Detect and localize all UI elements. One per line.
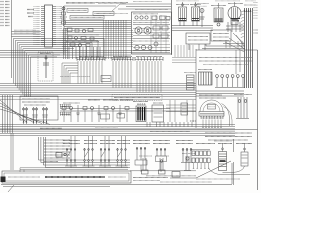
bottom headers row1 (63, 140, 193, 142)
ballast resistor hatched (214, 141, 232, 171)
output transformer T3 (211, 3, 226, 26)
cluster component right (234, 95, 252, 119)
module box lower (152, 103, 164, 122)
pointer line (170, 161, 231, 178)
IC U1 right pins (53, 7, 57, 45)
wire drops right of tuner (172, 45, 196, 63)
lower main bus (0, 125, 258, 136)
tuner coil L1 (135, 27, 142, 34)
harness hatch labels (241, 11, 244, 38)
transformer dark bars (215, 19, 241, 22)
lower mid wires right (166, 100, 196, 122)
IC U1 main processor (45, 5, 53, 47)
switch output wires (20, 168, 128, 172)
module box B top (93, 4, 126, 16)
component row labels (63, 100, 133, 103)
harness labels (244, 5, 258, 33)
junction box bottom (130, 171, 196, 177)
component row right panel (215, 75, 245, 88)
speedometer pin wires (190, 120, 221, 129)
wires below T1 T2 (180, 21, 205, 50)
wire drops from P2 (113, 61, 131, 88)
ignition coil hatched box (184, 73, 196, 91)
flyback transformer T4 (228, 2, 243, 25)
switch S2 (83, 148, 95, 168)
IC U1 left pins (41, 7, 45, 45)
section divider wire (171, 0, 173, 55)
connector strip P2 (112, 57, 134, 61)
speedometer arc outer (200, 100, 223, 112)
wires above tuner (112, 2, 171, 12)
lamp L3 (42, 107, 48, 124)
wires right of IC (64, 28, 68, 59)
comb connector left (60, 104, 70, 115)
connector pin label list (1, 2, 10, 26)
ground junction block (1, 177, 6, 183)
speedometer right shoulder wires (222, 104, 233, 127)
switch S4 (116, 148, 128, 168)
connector strip P3 (135, 57, 164, 61)
main horizontal bus (0, 84, 196, 100)
IF transformer T1 (176, 2, 189, 21)
connector strip P1 (77, 57, 106, 61)
tuner coil L2 (144, 27, 151, 34)
component boxes mid (101, 114, 125, 120)
top edge labels (176, 0, 256, 2)
sensor B2 (156, 156, 169, 174)
wire drops from P3 (137, 61, 161, 92)
tuner caps (135, 16, 170, 20)
wavy harness wire (208, 168, 250, 175)
antenna input chain (60, 6, 67, 26)
note text bottom (133, 176, 212, 182)
parts list text block (44, 140, 70, 162)
wire bus right top (172, 26, 213, 31)
tuner internal wires (133, 15, 170, 53)
right panel text rows (199, 58, 252, 65)
terminal strip text (8, 176, 126, 178)
terminal strip box outer (2, 171, 131, 183)
IC U1 pin labels left (34, 7, 41, 45)
dashed label box mid (112, 95, 162, 101)
tuner inner parts (133, 23, 170, 51)
divider vertical right (233, 139, 235, 185)
tuner top labels (133, 10, 168, 14)
node labels (27, 10, 34, 17)
resistor capacitor row (62, 105, 129, 122)
connector group G7 (181, 148, 193, 163)
wire rows mid (62, 31, 133, 47)
right margin text column (254, 3, 258, 19)
lamp group labels (22, 99, 50, 105)
harness arrowheads (244, 10, 252, 12)
wire harness corner fan (13, 39, 104, 97)
module box right (186, 33, 210, 44)
component row main wire (60, 109, 196, 112)
instrument cluster labels (199, 95, 226, 98)
regulator component (223, 143, 249, 173)
module box C (70, 16, 104, 20)
wire bus upper middle (0, 51, 170, 58)
bus label (95, 127, 190, 132)
diagonal feed wires (0, 100, 50, 124)
bottom bus lines (1, 184, 232, 192)
ignition switch box (181, 103, 188, 115)
delay line box (101, 76, 111, 82)
bottom right riser (231, 163, 233, 184)
wire rows top middle (64, 3, 131, 29)
left harness drop bundle (39, 137, 131, 168)
bottom headers row2 (63, 143, 252, 145)
lamp L1 (22, 107, 28, 124)
switch S1 (65, 148, 77, 168)
speedometer pins (201, 116, 224, 119)
sensor B3 (182, 154, 195, 171)
switch S6 group (156, 148, 167, 172)
crystal Y1 (40, 54, 51, 79)
crystal Y1 dashed box (38, 52, 53, 81)
switch S5 group (135, 147, 147, 172)
speedometer base (199, 112, 224, 117)
IF transformer T2 (190, 2, 201, 21)
main harness vertical bundle (245, 8, 253, 88)
nested corner wires mid (62, 63, 78, 84)
module boundary (64, 6, 116, 55)
terminal strip box inner (4, 173, 129, 181)
tuner module box (132, 12, 172, 54)
speedometer arc inner (203, 103, 220, 112)
tube V1 top right (197, 4, 209, 28)
vertical wire bundle center (104, 20, 127, 59)
high voltage cage lines (226, 22, 244, 32)
small parts cluster (66, 28, 99, 47)
left margin verticals (3, 95, 14, 170)
diagonal sweeps to bundle (225, 33, 245, 52)
wire vertical bus left (11, 0, 13, 78)
dark connector block (133, 102, 148, 122)
switch feed wires (71, 136, 126, 148)
wire drops from P1 (78, 61, 102, 84)
speedometer center movement (208, 105, 216, 110)
right panel wires (196, 50, 244, 96)
lamp L2 (32, 107, 38, 124)
bottom right note (196, 178, 240, 180)
sensor B1 (139, 156, 152, 174)
relay block hatched (198, 70, 212, 86)
lower mid verticals (147, 122, 192, 127)
cluster text below (205, 133, 252, 140)
lamp cluster box (20, 96, 58, 120)
vertical drops left cluster (69, 47, 100, 59)
switch S3 (99, 148, 111, 168)
right panel border (196, 49, 258, 190)
IC U1 pin labels right (57, 7, 63, 45)
bus text left (40, 127, 62, 129)
wires to IC from left bus (12, 30, 42, 36)
tuner small circles (135, 42, 158, 50)
fuse block grid (191, 150, 210, 169)
module box A top (66, 4, 95, 13)
wire bends right (202, 41, 245, 49)
module box right2 (211, 30, 231, 41)
bus stub labels (60, 76, 90, 78)
